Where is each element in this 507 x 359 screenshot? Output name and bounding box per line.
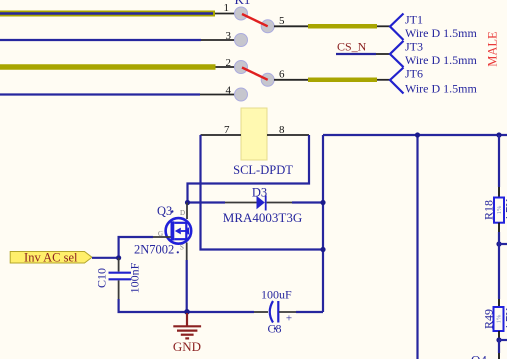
svg-text:+: + xyxy=(286,313,292,325)
svg-text:R18: R18 xyxy=(482,200,496,220)
wire: right column between resistors xyxy=(498,135,500,187)
svg-text:C10: C10 xyxy=(95,268,109,288)
svg-text:4.7K: 4.7K xyxy=(503,198,507,222)
resistor R18 bottom pin xyxy=(498,223,500,232)
wire: line to K1 pin 3 xyxy=(0,39,201,41)
wire: JT1 thick segment xyxy=(308,24,377,29)
svg-text:1: 1 xyxy=(224,2,230,14)
diode D3 xyxy=(257,196,266,211)
svg-text:Wire D 1.5mm: Wire D 1.5mm xyxy=(405,53,478,67)
relay K1 contact pin 4 xyxy=(235,88,248,101)
harness entry JT3 xyxy=(390,41,404,67)
transistor Q4 pin (cut off) xyxy=(498,353,500,359)
wire: source to ground rail xyxy=(186,260,188,312)
svg-text:Inv AC sel: Inv AC sel xyxy=(24,250,78,264)
svg-text:JT6: JT6 xyxy=(405,67,423,81)
svg-text:SCL-DPDT: SCL-DPDT xyxy=(233,163,293,177)
wire: K1 pin 5 stub xyxy=(274,25,308,27)
wire: CS_N segment xyxy=(336,53,376,55)
transistor Q3 source pin xyxy=(186,243,188,261)
wire: AC line 2 thick (to K1 pin 2) xyxy=(0,64,216,70)
svg-text:Q3: Q3 xyxy=(157,204,172,218)
designator dot 2N7002 xyxy=(177,251,179,253)
wire: diode anode pin xyxy=(225,202,257,204)
capacitor C10 bottom pin xyxy=(118,280,120,299)
junction at (499,135) xyxy=(496,132,501,137)
svg-text:D3: D3 xyxy=(252,186,267,200)
resistor R18 body xyxy=(494,198,504,223)
wire: stub right at 244 xyxy=(499,243,507,245)
svg-text:R49: R49 xyxy=(482,309,496,329)
svg-text:5: 5 xyxy=(279,15,285,27)
wire: top horizontal to right edge xyxy=(323,134,507,136)
svg-text:MALE: MALE xyxy=(485,31,499,67)
wire: C10 to bottom rail xyxy=(119,299,254,312)
relay K1 coil body xyxy=(241,108,267,160)
capacitor C8 plates xyxy=(270,301,279,323)
wire: line to K1 pin 4 xyxy=(0,93,200,95)
wire: C8 to right loop xyxy=(296,311,323,313)
resistor R49 bottom pin xyxy=(498,331,500,339)
harness entry JT6 xyxy=(390,68,404,94)
resistor R18 top pin xyxy=(498,187,500,198)
relay K1 contact pin 5 xyxy=(261,20,274,33)
net label flag Inv AC sel xyxy=(10,250,92,264)
svg-text:K1: K1 xyxy=(235,0,251,7)
wire: JT3 black segment xyxy=(376,53,390,55)
wire: below junction 340 xyxy=(498,340,500,353)
svg-text:GND: GND xyxy=(173,339,201,354)
wire: JT6 thick segment xyxy=(308,78,377,83)
capacitor C10 top pin xyxy=(118,258,120,272)
capacitor C8 right pin xyxy=(279,311,296,313)
designator dot Q3 xyxy=(171,210,173,212)
wire: JT6 black segment xyxy=(377,79,390,81)
junction at (499,244) xyxy=(496,241,501,246)
svg-text:100nF: 100nF xyxy=(128,262,142,293)
wire: K1 pin 6 stub xyxy=(274,79,308,81)
wire: K1 pin 4 stub xyxy=(200,94,235,96)
resistor R49 top pin xyxy=(498,299,500,307)
wire: JT1 black segment xyxy=(377,25,390,27)
resistor R49 body xyxy=(494,307,504,331)
svg-text:2: 2 xyxy=(226,57,232,69)
wire: AC line 1 thick (to K1 pin 1) xyxy=(0,11,215,17)
junction at (187.5,202) xyxy=(185,200,190,205)
junction at (417.5,135) xyxy=(415,132,420,137)
wire: K1 pin 1 stub xyxy=(215,13,235,15)
svg-text:Q4: Q4 xyxy=(471,353,487,359)
relay K1 contact pin 3 xyxy=(235,34,248,47)
junction at (323,249.5) xyxy=(320,247,325,252)
junction at (323,202) xyxy=(320,200,325,205)
relay K1 contact pin 6 xyxy=(261,73,274,86)
wire: K1 pin 8 stub xyxy=(267,134,309,136)
svg-text:D: D xyxy=(180,209,185,217)
junction at (187,312) xyxy=(184,309,190,315)
designator dot C8 xyxy=(274,327,276,329)
relay K1 switch lever 2-6 xyxy=(242,68,268,80)
svg-text:4: 4 xyxy=(226,85,232,97)
wire: diode net left segment xyxy=(188,201,226,203)
svg-text:JT1: JT1 xyxy=(405,13,423,27)
junction at (118.6,258) xyxy=(116,255,121,260)
wire: pin7 vertical down xyxy=(201,135,324,250)
ground symbol GND xyxy=(173,313,201,338)
wire: stub right at 340 xyxy=(499,339,507,341)
transistor Q3 drain pin xyxy=(186,203,188,220)
svg-text:3: 3 xyxy=(226,30,232,42)
harness entry JT1 xyxy=(390,14,404,41)
svg-text:100uF: 100uF xyxy=(261,288,292,302)
wire: K1 pin 3 stub xyxy=(201,39,235,41)
wire: gate wire xyxy=(119,237,153,258)
wire: right loop vertical x=323 xyxy=(322,135,324,312)
svg-text:1%: 1% xyxy=(495,314,502,323)
svg-text:2N7002: 2N7002 xyxy=(134,243,174,257)
wire: pin8 down and left xyxy=(188,135,310,203)
transistor Q3 body xyxy=(166,218,192,244)
capacitor C10 plates xyxy=(109,273,132,280)
svg-text:4.7K: 4.7K xyxy=(503,307,507,331)
wire: K1 pin 7 stub xyxy=(201,134,242,136)
svg-text:6: 6 xyxy=(279,69,285,81)
transistor Q3 gate pin xyxy=(153,236,171,238)
wire: flag to junction xyxy=(92,257,119,259)
wire: diode net right segment xyxy=(292,201,323,203)
svg-text:Wire D 1.5mm: Wire D 1.5mm xyxy=(405,26,478,40)
svg-text:G: G xyxy=(158,230,163,238)
relay K1 contact pin 2 xyxy=(235,61,248,74)
svg-text:Wire D 1.5mm: Wire D 1.5mm xyxy=(405,82,478,96)
capacitor C8 left pin xyxy=(254,311,268,313)
relay K1 switch lever 1-5 xyxy=(242,14,268,26)
svg-text:JT3: JT3 xyxy=(405,40,423,54)
wire: diode cathode pin xyxy=(267,202,292,204)
junction at (499,340) xyxy=(496,337,501,342)
svg-text:CS_N: CS_N xyxy=(337,40,367,54)
relay K1 contact pin 1 xyxy=(235,7,248,20)
wire: K1 pin 2 stub xyxy=(216,66,236,68)
svg-text:S: S xyxy=(180,244,184,252)
wire: vertical branch x=417.5 xyxy=(416,135,418,359)
svg-text:MRA4003T3G: MRA4003T3G xyxy=(223,210,302,225)
